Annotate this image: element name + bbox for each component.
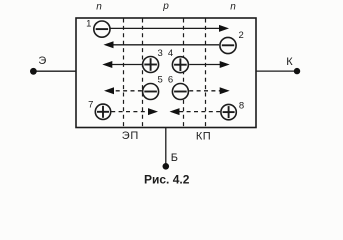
svg-text:5: 5	[158, 75, 163, 86]
svg-text:2: 2	[239, 30, 244, 41]
svg-text:Э: Э	[38, 55, 46, 67]
svg-text:Рис. 4.2: Рис. 4.2	[144, 173, 190, 187]
svg-text:7: 7	[88, 99, 93, 110]
svg-text:4: 4	[168, 48, 173, 59]
svg-text:К: К	[286, 56, 293, 68]
svg-text:3: 3	[158, 48, 163, 59]
svg-text:n: n	[96, 2, 102, 13]
svg-text:8: 8	[239, 100, 244, 111]
svg-text:ЭП: ЭП	[122, 130, 139, 142]
svg-text:КП: КП	[196, 130, 211, 142]
svg-text:p: p	[162, 1, 169, 12]
svg-text:1: 1	[86, 18, 91, 29]
svg-text:n: n	[230, 2, 236, 13]
svg-text:Б: Б	[171, 152, 178, 164]
svg-text:6: 6	[168, 75, 173, 86]
